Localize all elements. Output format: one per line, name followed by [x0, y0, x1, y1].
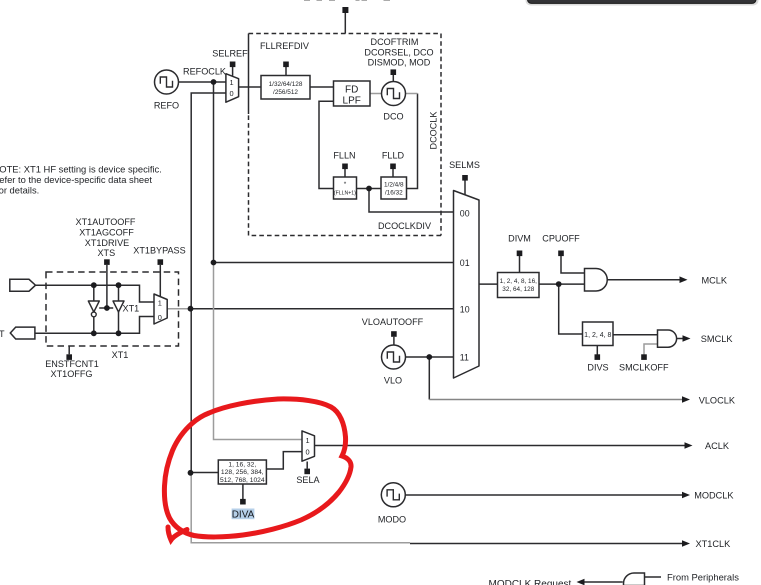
svg-text:XT1: XT1 — [112, 350, 129, 360]
svg-text:XT1BYPASS: XT1BYPASS — [133, 246, 185, 256]
svg-text:VLOAUTOOFF: VLOAUTOOFF — [362, 317, 424, 327]
svg-text:CPUOFF: CPUOFF — [542, 234, 580, 244]
svg-text:NOTE: XT1 HF setting is device: NOTE: XT1 HF setting is device specific. — [0, 164, 162, 175]
svg-text:DCOCLK: DCOCLK — [429, 112, 439, 150]
svg-text:DIVA: DIVA — [232, 510, 255, 521]
svg-text:XT1DRIVE: XT1DRIVE — [85, 238, 129, 248]
svg-text:00: 00 — [460, 208, 470, 218]
svg-text:XOUT: XOUT — [0, 329, 5, 339]
svg-text:XT1AGCOFF: XT1AGCOFF — [79, 228, 134, 238]
svg-text:0: 0 — [305, 448, 309, 457]
svg-text:MCLK: MCLK — [702, 276, 728, 286]
svg-text:XTS: XTS — [97, 248, 115, 258]
svg-text:VLOCLK: VLOCLK — [699, 395, 736, 405]
svg-text:1: 1 — [229, 78, 233, 87]
svg-text:1/2/4/8: 1/2/4/8 — [384, 182, 404, 189]
svg-text:MODO: MODO — [378, 515, 406, 525]
svg-text:FLLD: FLLD — [382, 151, 405, 161]
svg-text:DCOCLKDIV: DCOCLKDIV — [378, 221, 432, 231]
svg-text:DISMOD, MOD: DISMOD, MOD — [368, 58, 431, 68]
svg-text:11: 11 — [460, 352, 469, 362]
svg-text:10: 10 — [460, 304, 470, 314]
svg-text:SELREF: SELREF — [212, 49, 248, 59]
svg-text:0: 0 — [158, 313, 162, 322]
svg-text:1: 1 — [305, 436, 309, 445]
svg-text:LPF: LPF — [343, 96, 361, 107]
svg-text:FLLN: FLLN — [333, 151, 355, 161]
svg-text:DCO: DCO — [383, 112, 403, 122]
svg-text:SMCLK: SMCLK — [701, 334, 734, 344]
svg-text:for details.: for details. — [0, 184, 39, 195]
svg-text:FD: FD — [345, 85, 358, 96]
svg-text:SELMS: SELMS — [449, 160, 480, 170]
svg-text:1/32/64/128: 1/32/64/128 — [269, 81, 303, 88]
svg-text:From Peripherals: From Peripherals — [667, 572, 739, 583]
svg-text:VLO: VLO — [384, 376, 402, 386]
svg-text:1, 2, 4, 8, 16,: 1, 2, 4, 8, 16, — [500, 278, 538, 285]
svg-text:ACLK: ACLK — [705, 441, 730, 451]
svg-text:SMCLKOFF: SMCLKOFF — [619, 363, 669, 373]
svg-text:XT1CLK: XT1CLK — [696, 539, 732, 549]
svg-text:SELA: SELA — [296, 475, 320, 485]
svg-text:DIVM: DIVM — [508, 234, 531, 244]
svg-text:REFOCLK: REFOCLK — [183, 67, 226, 77]
svg-text:1, 16, 32,: 1, 16, 32, — [228, 462, 256, 469]
svg-text:XT1AUTOOFF: XT1AUTOOFF — [76, 217, 136, 227]
svg-text:XT1: XT1 — [123, 304, 140, 314]
svg-text:ENSTFCNT1: ENSTFCNT1 — [45, 359, 99, 369]
svg-text:FLLREFDIV: FLLREFDIV — [260, 41, 310, 51]
svg-text:1, 2, 4, 8: 1, 2, 4, 8 — [584, 332, 611, 339]
svg-text:DCOFTRIM: DCOFTRIM — [371, 37, 419, 47]
svg-text:MODCLK Request: MODCLK Request — [489, 579, 572, 585]
svg-text:0: 0 — [229, 89, 233, 98]
svg-text:128, 256, 384,: 128, 256, 384, — [221, 469, 264, 476]
svg-text:/16/32: /16/32 — [385, 190, 403, 197]
svg-text:01: 01 — [460, 258, 470, 268]
svg-text:1: 1 — [158, 299, 162, 308]
svg-text:XT1OFFG: XT1OFFG — [51, 369, 93, 379]
svg-text:32, 64, 128: 32, 64, 128 — [502, 286, 534, 293]
svg-text:(FLLN+1): (FLLN+1) — [334, 190, 356, 196]
svg-text:DIVS: DIVS — [587, 363, 608, 373]
svg-text:MODCLK: MODCLK — [694, 491, 734, 501]
svg-text:REFO: REFO — [154, 101, 179, 111]
svg-text:DCORSEL, DCO: DCORSEL, DCO — [364, 48, 433, 58]
svg-text:/256/512: /256/512 — [273, 89, 298, 96]
svg-text:512, 768, 1024: 512, 768, 1024 — [220, 477, 265, 484]
